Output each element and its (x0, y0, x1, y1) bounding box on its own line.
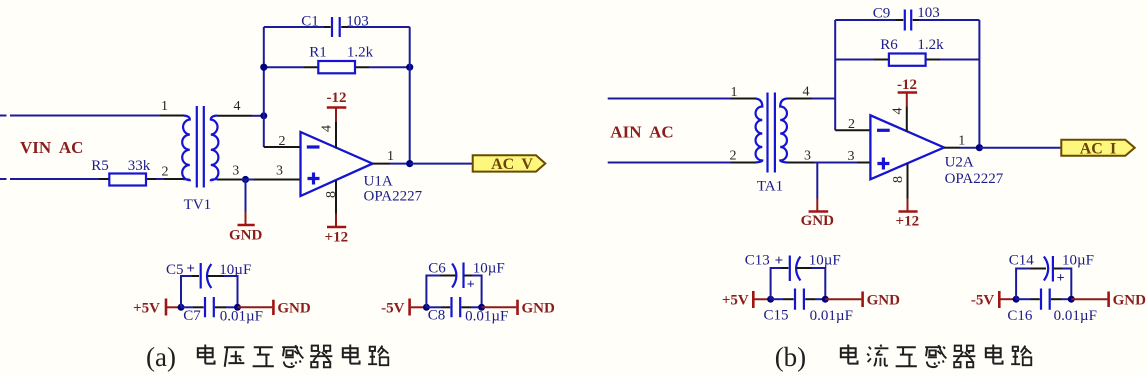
svg-text:103: 103 (917, 5, 940, 21)
wire output to port (b) (979, 147, 1061, 149)
power +5V port (C13 group) (722, 291, 771, 309)
svg-text:2: 2 (162, 165, 169, 180)
resistor R5 (99, 174, 156, 186)
junction C14 left (1013, 296, 1020, 303)
svg-text:AIN AC: AIN AC (610, 123, 673, 142)
svg-text:U2A: U2A (945, 155, 974, 171)
svg-text:0.01µF: 0.01µF (810, 308, 853, 324)
power +12 (U2A) (896, 199, 920, 230)
pin U2A-4 (906, 107, 908, 132)
svg-text:2: 2 (848, 117, 855, 132)
wire right feedback vertical (409, 27, 411, 164)
svg-text:4: 4 (890, 108, 905, 115)
wire pin3 to opamp (814, 162, 857, 164)
ground GND (C14 group) (1071, 292, 1146, 309)
svg-text:AC V: AC V (491, 156, 533, 173)
svg-text:GND: GND (229, 227, 263, 243)
svg-text:-12: -12 (327, 90, 347, 106)
pin U2A-1 (944, 147, 960, 149)
capacitor C6 (440, 263, 472, 289)
svg-text:10µF: 10µF (1062, 253, 1094, 269)
svg-text:1: 1 (731, 85, 738, 100)
port AC_I (1061, 140, 1134, 158)
capacitor C14 (1030, 256, 1062, 282)
svg-text:OPA2227: OPA2227 (945, 171, 1004, 187)
junction output node (b) (976, 144, 983, 151)
svg-text:1: 1 (161, 99, 168, 114)
ground GND (TV1) (229, 180, 263, 244)
wire VIN top (10, 115, 160, 117)
capacitor C9 (835, 10, 979, 31)
power -12 (U2A) (897, 77, 917, 107)
svg-text:3: 3 (276, 163, 283, 178)
junction C5 left (178, 304, 185, 311)
svg-text:C7: C7 (183, 308, 201, 324)
svg-text:4: 4 (320, 125, 335, 132)
transformer TA1 (756, 93, 788, 173)
svg-text:1: 1 (387, 149, 394, 164)
capacitor C7 (181, 297, 238, 317)
svg-text:2: 2 (730, 149, 737, 164)
svg-text:3: 3 (848, 149, 855, 164)
power +12 (U1A) (325, 214, 349, 246)
wire C5 loop left (181, 276, 192, 307)
wire pin4 to feedback vertical (812, 98, 835, 100)
capacitor C5 (192, 263, 224, 289)
svg-text:(b): (b) (775, 342, 806, 372)
wire C5 loop right (224, 276, 238, 307)
svg-text:U1A: U1A (364, 174, 393, 190)
svg-text:GND: GND (867, 292, 901, 308)
svg-text:+: + (1057, 271, 1065, 286)
wire right feedback vertical (b) (978, 20, 980, 148)
pin U1A-2 (264, 146, 300, 148)
svg-text:TV1: TV1 (184, 197, 212, 213)
pin TA1-1 (731, 98, 756, 100)
svg-text:GND: GND (801, 213, 835, 229)
svg-text:GND: GND (522, 300, 556, 316)
junction R1 left (260, 64, 267, 71)
svg-text:2: 2 (279, 134, 286, 149)
svg-text:C8: C8 (428, 307, 446, 323)
svg-text:3: 3 (232, 163, 239, 178)
svg-text:8: 8 (891, 176, 906, 183)
svg-text:3: 3 (804, 148, 811, 163)
caption b chinese 电流互感器电路 (841, 345, 1031, 368)
wire C13 loop left (771, 268, 781, 299)
pin U2A-2 (835, 129, 870, 131)
svg-text:R5: R5 (91, 158, 109, 174)
pin U2A-8 (907, 164, 909, 199)
svg-text:GND: GND (1113, 292, 1147, 308)
wire input bottom stub (0, 178, 7, 180)
pin TV1-2 (164, 178, 184, 180)
transformer TV1 (182, 106, 218, 188)
svg-text:0.01µF: 0.01µF (220, 309, 263, 325)
junction R1 right (406, 64, 413, 71)
pin TV1-1 (160, 115, 184, 117)
junction pin3/GND (242, 176, 249, 183)
ground GND (C5 group) (238, 300, 311, 317)
svg-text:0.01µF: 0.01µF (1054, 308, 1097, 324)
op-amp U2A (870, 115, 944, 179)
svg-text:C15: C15 (763, 308, 788, 324)
svg-text:R6: R6 (880, 37, 898, 53)
svg-text:33k: 33k (128, 158, 151, 174)
wire output to junction (390, 163, 410, 165)
wire output to port (410, 163, 473, 165)
junction C5 right (234, 304, 241, 311)
capacitor C15 (771, 289, 826, 310)
op-amp U1A (301, 132, 373, 196)
junction C6 right (478, 304, 485, 311)
wire AIN bottom (608, 162, 731, 164)
svg-text:(a): (a) (146, 342, 176, 372)
svg-text:C5: C5 (166, 262, 184, 278)
svg-text:+12: +12 (896, 214, 920, 230)
pin TV1-3 (217, 179, 242, 181)
svg-text:GND: GND (277, 301, 311, 317)
svg-text:TA1: TA1 (757, 179, 783, 195)
svg-text:+: + (467, 278, 475, 293)
ground GND (C6 group) (482, 300, 555, 317)
wire left feedback vertical (263, 27, 265, 147)
svg-text:+5V: +5V (722, 293, 749, 309)
svg-text:1.2k: 1.2k (917, 37, 944, 53)
svg-text:8: 8 (324, 191, 339, 198)
wire output to junction (b) (960, 147, 979, 149)
svg-text:C16: C16 (1007, 308, 1033, 324)
svg-text:AC I: AC I (1080, 140, 1117, 157)
power +5V port (C5 group) (133, 299, 181, 317)
pin TA1-3 (787, 162, 814, 164)
caption a chinese 电压互感器电路 (198, 345, 388, 368)
wire pin4 to node (252, 115, 264, 117)
svg-text:-5V: -5V (381, 301, 404, 317)
svg-text:+5V: +5V (133, 301, 160, 317)
pin U1A-1 (373, 163, 391, 165)
capacitor C16 (1016, 289, 1071, 310)
svg-text:4: 4 (234, 99, 241, 114)
svg-text:C14: C14 (1009, 253, 1035, 269)
resistor R6 (835, 54, 979, 66)
pin TV1-4 (217, 115, 252, 117)
resistor R1 (264, 61, 410, 73)
capacitor C13 (781, 256, 812, 282)
junction C13 left (767, 296, 774, 303)
svg-text:-5V: -5V (971, 293, 994, 309)
svg-text:+: + (186, 261, 195, 277)
ground GND (TA1) (801, 163, 835, 230)
svg-text:103: 103 (346, 14, 369, 30)
power -5V port (C14 group) (971, 291, 1016, 309)
wire VIN bottom (10, 178, 99, 180)
wire C6 loop right (472, 276, 482, 308)
port AC_V (473, 155, 546, 173)
svg-text:VIN AC: VIN AC (20, 138, 83, 157)
svg-text:1.2k: 1.2k (347, 44, 374, 60)
svg-text:+: + (775, 253, 784, 269)
junction C6 left (423, 304, 430, 311)
pin U1A-8 (335, 181, 337, 214)
junction C14 right (1068, 296, 1075, 303)
junction C13 right (822, 296, 829, 303)
svg-text:R1: R1 (309, 44, 327, 60)
wire AIN top (608, 98, 731, 100)
wire C14 loop left (1016, 269, 1030, 300)
power -5V port (C6 group) (381, 299, 426, 317)
svg-text:-12: -12 (897, 77, 917, 93)
pin U2A-3 (857, 162, 870, 164)
wire pin3 node to opamp (242, 179, 254, 181)
svg-text:4: 4 (803, 85, 810, 100)
svg-text:1: 1 (958, 134, 965, 149)
svg-text:0.01µF: 0.01µF (465, 309, 508, 325)
power -12 (U1A) (327, 90, 347, 122)
wire R5 to TV1 (156, 178, 164, 180)
wire C14 loop right (1062, 269, 1071, 300)
junction output node (406, 160, 413, 167)
pin TA1-2 (731, 162, 756, 164)
capacitor C8 (426, 297, 481, 317)
wire C6 loop left (426, 276, 440, 308)
svg-text:OPA2227: OPA2227 (364, 189, 423, 205)
wire input top-left stub (0, 115, 7, 117)
svg-text:C13: C13 (745, 253, 770, 269)
capacitor C1 (264, 17, 410, 37)
svg-text:C9: C9 (873, 6, 891, 22)
wire C13 loop right (812, 268, 825, 299)
pin U1A-3 (254, 179, 300, 181)
svg-text:10µF: 10µF (809, 253, 841, 269)
wire left feedback vertical (b) (834, 20, 836, 130)
svg-text:C6: C6 (428, 261, 446, 277)
ground GND (C13 group) (825, 292, 900, 309)
svg-text:10µF: 10µF (473, 261, 505, 277)
svg-text:C1: C1 (301, 14, 319, 30)
pin TA1-4 (787, 98, 812, 100)
pin U1A-4 (335, 122, 337, 149)
junction pin4 node (260, 112, 267, 119)
svg-text:+12: +12 (325, 230, 349, 246)
